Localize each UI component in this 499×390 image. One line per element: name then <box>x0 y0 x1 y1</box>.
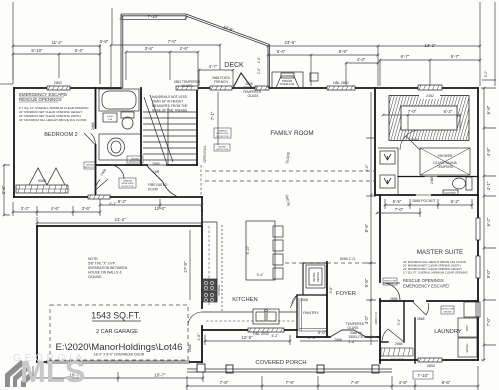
svg-text:SMOKE: SMOKE <box>386 283 394 285</box>
svg-text:7'-0": 7'-0" <box>486 317 491 326</box>
svg-text:8'-6": 8'-6" <box>442 380 451 385</box>
dim ext line x480 <box>479 2 481 62</box>
svg-text:7'-9": 7'-9" <box>286 380 295 385</box>
dim row 8-2 12-0 <box>100 199 202 209</box>
svg-text:TUB: TUB <box>108 119 113 121</box>
svg-text:6'-7": 6'-7" <box>401 54 410 59</box>
kitchen island <box>246 221 275 280</box>
dim ext line x495 <box>482 2 496 86</box>
svg-text:4'-6": 4'-6" <box>308 335 317 340</box>
window 2452 master top <box>418 85 442 90</box>
svg-text:CARBON: CARBON <box>218 130 228 133</box>
svg-text:4'-8": 4'-8" <box>399 380 408 385</box>
svg-text:4'-0": 4'-0" <box>257 57 261 63</box>
svg-text:4'-7": 4'-7" <box>209 64 218 69</box>
svg-text:2'-0": 2'-0" <box>257 68 261 74</box>
svg-text:SIDELITES: SIDELITES <box>349 335 367 339</box>
svg-text:7'-8": 7'-8" <box>220 380 229 385</box>
svg-text:DETECTOR: DETECTOR <box>216 149 228 151</box>
svg-text:4'-3": 4'-3" <box>357 57 366 62</box>
dim kitchen 12-5 <box>205 335 290 345</box>
svg-text:3'-6": 3'-6" <box>145 46 154 51</box>
svg-text:5'-4": 5'-4" <box>277 49 286 54</box>
closet hatch marks <box>379 90 480 140</box>
dim line 3-6 2-6 <box>126 52 198 86</box>
dashed kitchen upper cabinets <box>221 225 223 312</box>
svg-text:SMOKE: SMOKE <box>131 159 139 161</box>
wall garage/house shared <box>201 197 203 362</box>
label 2452 <box>419 92 440 99</box>
svg-text:4'-8": 4'-8" <box>486 147 491 156</box>
smoke detector bedroom <box>84 162 96 169</box>
window 2852 bedroom2 top <box>47 86 70 90</box>
smoke detector box hall <box>127 156 143 163</box>
svg-text:2668: 2668 <box>410 138 418 142</box>
svg-text:FIREPLACE: FIREPLACE <box>280 82 295 86</box>
svg-text:44" MAXIMUM SILL HEIGHT ABOVE: 44" MAXIMUM SILL HEIGHT ABOVE FNL FLOOR <box>19 118 87 122</box>
master vanity band <box>378 148 398 195</box>
svg-text:DOOR: DOOR <box>148 188 159 192</box>
svg-text:HANDRAILS NOT LESS: HANDRAILS NOT LESS <box>152 95 187 99</box>
svg-text:2 CAR GARAGE: 2 CAR GARAGE <box>96 329 138 335</box>
window 2668 fixed french <box>210 86 232 90</box>
pantry shelves <box>299 298 326 331</box>
dim drops bedroom <box>13 46 100 84</box>
pocket door toilet <box>424 176 438 178</box>
svg-text:TEMPERD: TEMPERD <box>437 165 454 169</box>
garage corner pillar <box>197 364 205 372</box>
svg-text:OPEN RAIL: OPEN RAIL <box>203 145 207 162</box>
toilet 2 master bowl <box>453 178 466 189</box>
svg-text:16R: 16R <box>153 170 160 174</box>
svg-text:7'-0": 7'-0" <box>395 207 404 212</box>
garage overhead door line <box>46 361 190 363</box>
svg-text:DBL 2852: DBL 2852 <box>333 81 349 85</box>
prefab fireplace box <box>272 72 303 88</box>
svg-text:5'-6": 5'-6" <box>329 286 333 294</box>
coats closet shelf <box>381 348 413 356</box>
wall laundry left x415 <box>414 318 416 363</box>
svg-text:2668 POCKET: 2668 POCKET <box>412 199 437 203</box>
door bedroom2 <box>84 133 96 145</box>
svg-text:6'-2": 6'-2" <box>486 217 491 226</box>
island chairs <box>273 226 283 237</box>
dashed ceiling line family room 1 <box>205 170 375 172</box>
svg-text:18'-0" X 8'-0" OVERHEAD DOOR: 18'-0" X 8'-0" OVERHEAD DOOR <box>94 353 145 357</box>
window right of angled door <box>255 86 269 90</box>
svg-text:2'-8": 2'-8" <box>1 185 6 194</box>
svg-text:3'-6": 3'-6" <box>82 206 91 211</box>
svg-text:LAUNDRY: LAUNDRY <box>434 329 462 335</box>
svg-text:BEDROOM 2: BEDROOM 2 <box>44 132 78 138</box>
svg-text:DETECTOR: DETECTOR <box>217 136 229 138</box>
wall pantry top <box>297 294 327 296</box>
dim line left edge <box>0 83 13 85</box>
detector master hall <box>383 278 397 285</box>
dashed garage interior rect <box>50 305 188 360</box>
dim line deck 7-10 <box>121 14 186 20</box>
dim line 5-4 8-9 <box>268 55 378 86</box>
dim ext line x100 <box>99 44 101 84</box>
svg-text:HEATER: HEATER <box>316 272 320 282</box>
svg-text:3'-0": 3'-0" <box>484 70 488 78</box>
wall pantry left <box>296 295 298 337</box>
svg-text:COVERED PORCH: COVERED PORCH <box>255 360 306 366</box>
svg-text:COATS: COATS <box>390 357 404 362</box>
front door panels <box>330 330 366 337</box>
laundry storage shelf <box>464 302 478 317</box>
svg-text:6'-2": 6'-2" <box>444 109 453 114</box>
svg-text:HOUSE ON WALLS &: HOUSE ON WALLS & <box>88 271 122 275</box>
carbon monoxide detector hall <box>119 178 136 188</box>
window master right 1 <box>476 218 480 240</box>
pocket door master bath <box>415 194 432 196</box>
wall bath/stairs <box>140 88 142 165</box>
svg-text:NOSE OF THE TREADS: NOSE OF THE TREADS <box>152 109 187 113</box>
dim line 4-7 deck <box>199 70 233 86</box>
svg-text:DRY: DRY <box>465 325 469 331</box>
window 2852 tempered deck left <box>176 86 198 90</box>
wall toilet room <box>398 176 478 178</box>
vanity hall bath <box>99 134 141 160</box>
range hatched <box>202 279 217 290</box>
wall master suite bottom <box>381 300 478 302</box>
wall foyer front <box>297 336 380 338</box>
dim row garage top 3-2 4-6 3-6 <box>13 199 100 216</box>
svg-text:FRENCH: FRENCH <box>214 80 228 84</box>
svg-text:GLASS: GLASS <box>248 94 260 98</box>
door fire rated garage <box>147 166 178 197</box>
svg-text:CEILING.: CEILING. <box>88 275 103 279</box>
master sink 2 <box>380 175 395 188</box>
svg-text:LAVATORY: LAVATORY <box>444 192 457 195</box>
svg-text:3'-4": 3'-4" <box>397 319 401 325</box>
toilet 1 bowl <box>122 117 133 129</box>
dim line 4-3 <box>346 63 378 86</box>
svg-text:5080 C.O.: 5080 C.O. <box>340 257 356 261</box>
dim right side vertical <box>481 88 496 360</box>
svg-text:GLASS: GLASS <box>348 326 360 330</box>
svg-text:EMERGENCY ESCAPE/: EMERGENCY ESCAPE/ <box>403 284 450 289</box>
stairs bottom line <box>143 164 196 166</box>
svg-text:6'-8": 6'-8" <box>486 105 491 114</box>
wall coats top <box>381 341 388 343</box>
svg-text:NOTE:: NOTE: <box>88 257 98 261</box>
svg-text:7'-10": 7'-10" <box>417 373 429 378</box>
kitchen counter L <box>202 222 297 312</box>
window 2852 laundry bottom <box>418 358 442 362</box>
svg-text:50x30: 50x30 <box>107 116 114 118</box>
closet bifold bedroom <box>29 168 65 185</box>
deck right edge <box>268 45 270 89</box>
svg-text:MONOXIDE: MONOXIDE <box>122 183 134 185</box>
wall master bath bottom <box>375 194 478 196</box>
wall top family/deck <box>197 87 478 89</box>
svg-text:5'-8": 5'-8" <box>100 39 109 44</box>
svg-text:13'-2": 13'-2" <box>424 43 436 48</box>
stairs diagonal rails <box>144 95 173 164</box>
master closet ring <box>389 96 469 141</box>
svg-text:FAMILY ROOM: FAMILY ROOM <box>270 130 313 137</box>
stairs treads right flight <box>168 112 196 160</box>
dim left 2-8 <box>4 165 10 215</box>
svg-text:4'-1": 4'-1" <box>486 181 491 190</box>
dim interior 27-0 garage <box>189 230 191 300</box>
window hall bottom <box>88 195 110 199</box>
svg-text:6'-10": 6'-10" <box>246 245 250 254</box>
svg-text:2852: 2852 <box>427 364 435 368</box>
svg-text:DETECTOR: DETECTOR <box>129 161 141 163</box>
svg-text:4'-6": 4'-6" <box>51 206 60 211</box>
svg-text:RESCUE OPENINGS: RESCUE OPENINGS <box>19 97 62 102</box>
svg-text:THAN 34" IN HEIGHT: THAN 34" IN HEIGHT <box>152 100 183 104</box>
door coats 2668 <box>382 329 404 342</box>
svg-text:2'-6": 2'-6" <box>180 46 189 51</box>
dim interior 7-1 open rail <box>217 92 219 145</box>
svg-text:RANGE: RANGE <box>217 285 221 296</box>
wall water heater closet <box>303 263 327 295</box>
dashed ceiling line family room 2 <box>205 180 375 182</box>
svg-text:6'-2": 6'-2" <box>451 199 460 204</box>
tub label box <box>103 113 117 122</box>
svg-text:2068: 2068 <box>300 298 308 302</box>
svg-text:6'-7": 6'-7" <box>451 54 460 59</box>
dim interior 8-6 5-8 4-0 <box>366 92 376 345</box>
svg-text:4'-2": 4'-2" <box>271 334 279 338</box>
svg-text:8'-6": 8'-6" <box>364 223 369 232</box>
dashed cased opening foyer <box>285 262 372 264</box>
window master right 2 <box>476 256 480 278</box>
svg-text:2868: 2868 <box>152 162 160 166</box>
wall kitchen bottom <box>202 329 297 331</box>
svg-text:SEPARATION BETWEEN: SEPARATION BETWEEN <box>88 266 128 270</box>
svg-text:4'-0": 4'-0" <box>364 315 369 324</box>
toilet 2 master tank <box>466 177 472 190</box>
porch pillars <box>226 365 233 373</box>
svg-text:GLASS: GLASS <box>182 84 194 88</box>
svg-text:2868: 2868 <box>188 344 192 352</box>
svg-text:2668: 2668 <box>395 342 403 346</box>
svg-text:DETECTOR: DETECTOR <box>122 186 134 188</box>
svg-text:WATER: WATER <box>312 272 316 281</box>
window DBL 2032 kitchen bottom <box>248 328 284 332</box>
wall master wing left lower <box>379 195 381 363</box>
wall garage left <box>36 226 38 362</box>
svg-text:SMOKE: SMOKE <box>86 165 94 167</box>
svg-text:2852: 2852 <box>54 81 62 85</box>
stairs divider <box>167 108 169 165</box>
dim line 21-2 <box>37 212 202 226</box>
window laundry right <box>476 302 480 317</box>
dim line 7-0 mid <box>111 45 220 88</box>
svg-text:12'-0": 12'-0" <box>154 206 166 211</box>
svg-text:3068 C.O.: 3068 C.O. <box>374 311 378 325</box>
svg-text:SMOKE: SMOKE <box>444 311 452 313</box>
svg-text:6'-1": 6'-1" <box>109 202 117 206</box>
porch edge line <box>187 369 392 372</box>
svg-text:SHOWER: SHOWER <box>438 154 453 158</box>
svg-text:2668: 2668 <box>334 338 342 342</box>
wall stairs right <box>196 88 198 165</box>
kitchen counter dash center <box>206 226 295 321</box>
svg-text:3'-2": 3'-2" <box>21 206 30 211</box>
svg-text:1543 SQ.FT.: 1543 SQ.FT. <box>91 311 140 321</box>
svg-text:21'-2": 21'-2" <box>114 217 126 222</box>
svg-text:12'-5": 12'-5" <box>241 335 253 340</box>
dim line 23-5 13-2 <box>268 46 480 86</box>
svg-text:5'-10": 5'-10" <box>31 48 43 53</box>
svg-text:5.7 SQ. FT. OVERALL MINIMUM CL: 5.7 SQ. FT. OVERALL MINIMUM CLEAR OPENIN… <box>403 271 468 275</box>
wall master wing left upper <box>374 88 376 195</box>
svg-text:7'-0": 7'-0" <box>168 39 177 44</box>
door kitchen-garage arc <box>188 312 202 326</box>
wall bedroom2 bottom <box>14 196 202 198</box>
master sink 1 <box>380 151 395 164</box>
svg-text:CARBON: CARBON <box>123 180 133 183</box>
svg-text:2868: 2868 <box>390 297 398 301</box>
svg-text:9'-0": 9'-0" <box>486 269 491 278</box>
svg-text:MLS: MLS <box>20 354 85 389</box>
open rail dashed below stairs <box>200 165 202 197</box>
carbon monoxide detector family <box>214 128 231 138</box>
svg-text:KITCHEN: KITCHEN <box>232 297 257 303</box>
wall garage top <box>37 225 202 227</box>
svg-text:5/8" TPE "X" GYP.: 5/8" TPE "X" GYP. <box>88 262 116 266</box>
dim bottom garage 10-7 10-7 <box>33 366 203 382</box>
dim line 6-7 6-7 <box>380 60 480 86</box>
svg-text:8'-2": 8'-2" <box>118 199 127 204</box>
wall left exterior <box>13 88 15 197</box>
deck left edge <box>121 14 123 88</box>
wall laundry bottom <box>380 359 478 361</box>
wall garage bottom <box>37 361 202 363</box>
svg-text:7'-8": 7'-8" <box>351 380 360 385</box>
svg-text:4'-6": 4'-6" <box>197 333 201 341</box>
dim ext line left x13 <box>12 2 14 84</box>
svg-text:4'-8": 4'-8" <box>348 340 356 344</box>
svg-text:WASH: WASH <box>465 344 469 353</box>
svg-text:2468: 2468 <box>91 122 95 130</box>
svg-text:11'-2": 11'-2" <box>52 40 63 45</box>
wall top-left bedroom2 <box>14 87 121 89</box>
svg-text:5'-4": 5'-4" <box>75 48 84 53</box>
svg-text:MONOXIDE: MONOXIDE <box>217 133 229 135</box>
svg-text:2468: 2468 <box>430 176 434 184</box>
svg-text:5'-8": 5'-8" <box>364 278 369 287</box>
window DBL 2852 family top <box>327 86 355 90</box>
svg-text:4'-0": 4'-0" <box>365 164 369 172</box>
dim master 7-0 <box>377 208 420 217</box>
svg-text:FOYER: FOYER <box>336 291 356 297</box>
svg-text:MEASURED FROM THE: MEASURED FROM THE <box>152 104 188 108</box>
door pantry 2068 <box>290 295 297 308</box>
shower box <box>420 148 470 175</box>
dim line 11-2 <box>13 45 100 47</box>
svg-text:MASTER SUITE: MASTER SUITE <box>417 249 464 256</box>
svg-text:7'-10": 7'-10" <box>147 14 159 19</box>
svg-text:DBL 2032: DBL 2032 <box>253 332 269 336</box>
boxed dim rect <box>413 371 433 379</box>
svg-text:5'-5": 5'-5" <box>393 199 402 204</box>
svg-text:DETECTOR: DETECTOR <box>442 309 454 311</box>
dim vert 5-8 deck left <box>111 8 113 44</box>
column deck <box>310 73 318 81</box>
dim foyer 4-6 4-0 <box>300 340 378 342</box>
svg-text:2452: 2452 <box>426 94 434 98</box>
kitchen faucet <box>265 309 268 312</box>
window 5068 bedroom2 bottom <box>16 185 68 193</box>
svg-text:DECK: DECK <box>224 62 244 69</box>
door master bath to closet <box>400 130 420 150</box>
svg-text:FIRE RATED: FIRE RATED <box>148 183 168 187</box>
wall master wing right <box>477 88 479 360</box>
washer dryer boxes <box>458 318 477 337</box>
detector laundry <box>441 306 454 314</box>
deck diagonal edge <box>185 14 269 46</box>
bathtub <box>99 89 139 111</box>
door laundry <box>413 302 429 315</box>
kitchen sink <box>253 309 279 324</box>
svg-text:8'-9": 8'-9" <box>339 49 348 54</box>
svg-text:DETECTOR: DETECTOR <box>384 281 396 283</box>
wall hall y165 <box>96 164 198 166</box>
smoke detector family <box>214 144 230 151</box>
svg-text:DETECTOR: DETECTOR <box>84 167 96 169</box>
water heater closet <box>306 265 325 288</box>
wall hall/laundry x404 <box>403 301 405 342</box>
svg-text:10'-7": 10'-7" <box>154 373 166 378</box>
lavatory label box <box>443 190 458 196</box>
svg-text:27'-0": 27'-0" <box>183 261 188 273</box>
wall bed2/bath <box>95 88 97 197</box>
svg-text:7'-0": 7'-0" <box>408 109 417 114</box>
svg-text:3'-4": 3'-4" <box>257 273 265 277</box>
svg-text:RESCUE OPENINGS: RESCUE OPENINGS <box>403 278 444 283</box>
door bedroom hall 2868 <box>96 179 109 190</box>
svg-text:2868: 2868 <box>417 317 425 321</box>
svg-text:5068: 5068 <box>38 179 46 183</box>
wall foyer left <box>326 262 328 337</box>
dim master 5-5 pocket 6-2 <box>385 199 472 209</box>
sink oval hall bath <box>108 138 125 156</box>
toilet 1 tank <box>121 112 134 118</box>
stairs treads left flight <box>143 112 168 160</box>
dim bottom porch 7-8 7-9 7-8 <box>187 366 478 390</box>
watermark MLS logo chevrons <box>5 360 33 387</box>
dim line 5-10 5-4 <box>13 54 100 78</box>
svg-text:23'-5": 23'-5" <box>284 40 296 45</box>
french door angled panel triangle <box>233 73 252 88</box>
svg-text:7'-1": 7'-1" <box>210 111 215 120</box>
door master entry <box>383 283 400 300</box>
door hall-bath <box>110 165 124 179</box>
dim master closet <box>383 115 460 130</box>
svg-text:PANTRY: PANTRY <box>303 310 319 315</box>
deck top edge <box>121 14 186 16</box>
svg-text:SMOKE: SMOKE <box>218 147 226 149</box>
